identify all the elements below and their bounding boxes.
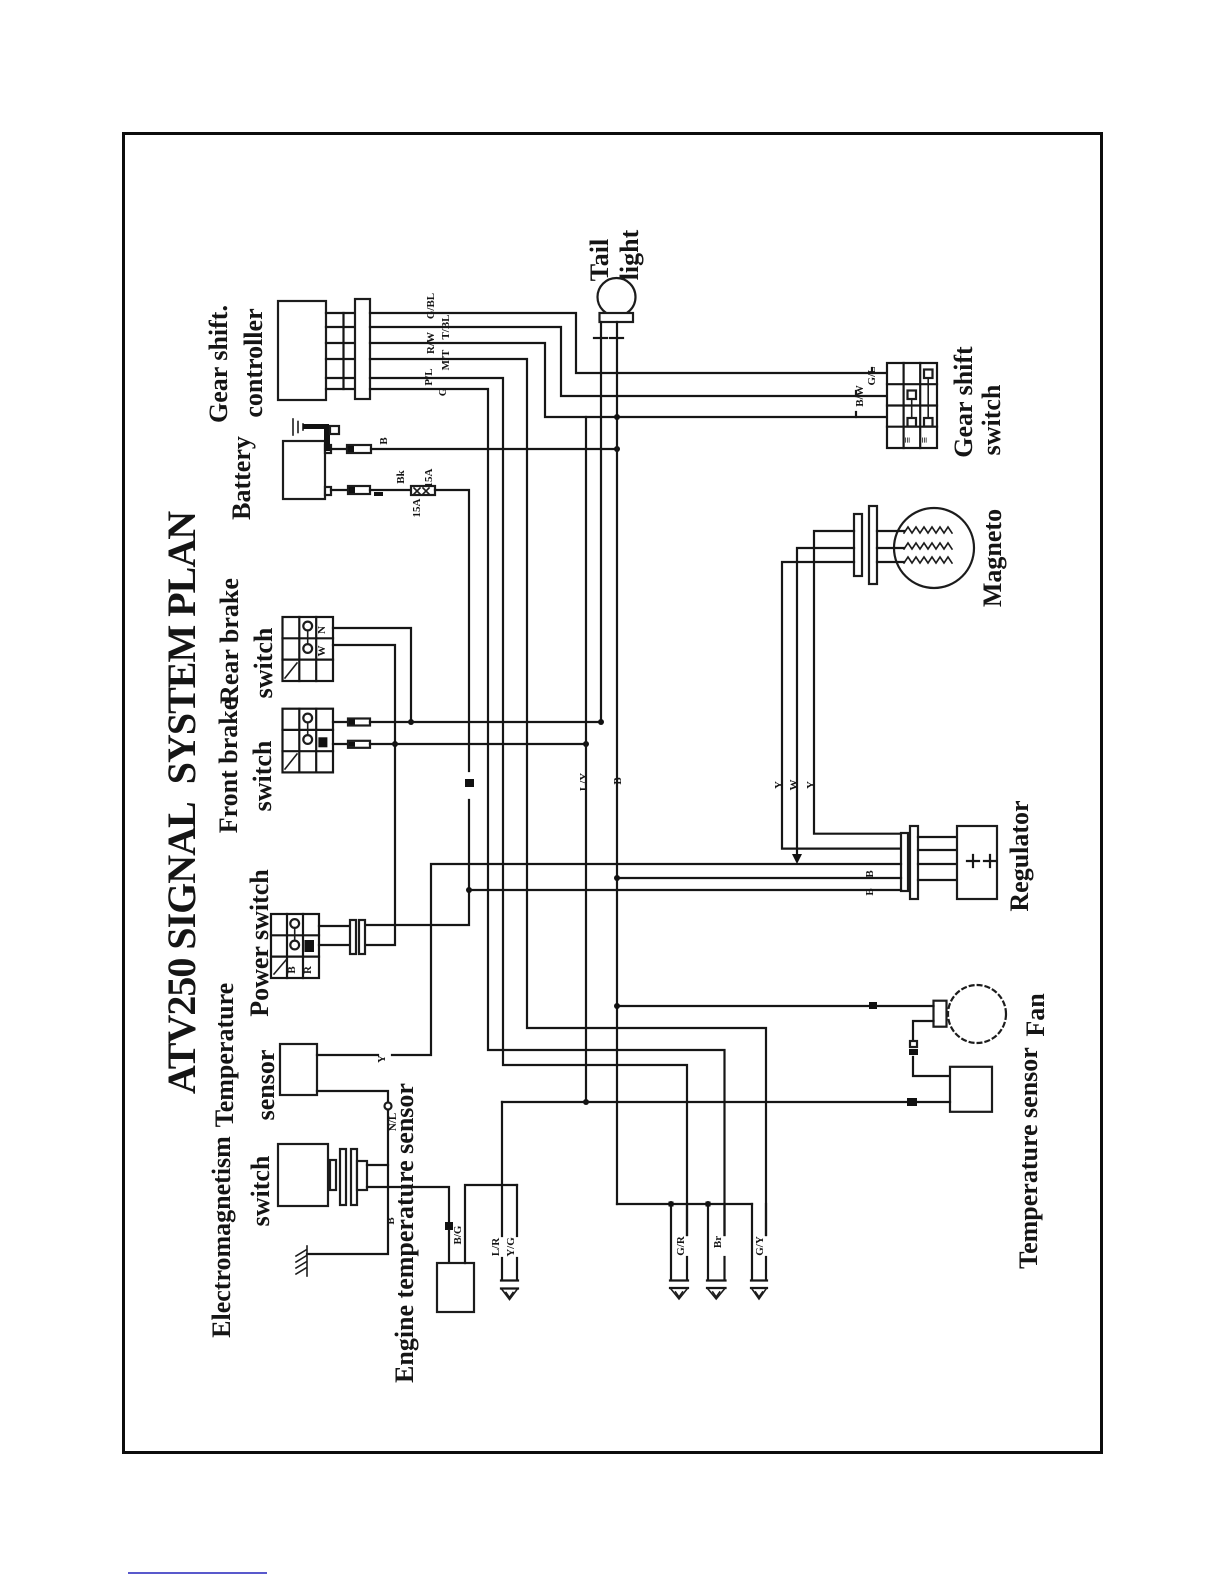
front brake diagonal [285, 754, 297, 769]
svg-text:15A: 15A [411, 498, 423, 517]
wire B: battery to tail light lead junction [371, 448, 617, 450]
svg-text:Bk: Bk [395, 469, 407, 483]
wire G: controller pin6 south run [370, 389, 725, 1235]
svg-text:switch: switch [249, 627, 278, 698]
connector bar right lead [610, 337, 623, 339]
svg-text:B: B [286, 966, 298, 974]
node: tail right lead x R/W wire [614, 414, 620, 420]
node [614, 875, 620, 881]
node [705, 1201, 711, 1207]
wire tag [374, 492, 383, 496]
wire G/BL: controller pin1 to gear shift switch row1 [370, 313, 887, 373]
svg-text:switch: switch [246, 1155, 275, 1226]
svg-text:G/L: G/L [866, 367, 878, 386]
svg-text:Regulator: Regulator [1005, 800, 1034, 911]
electromagnetism connector [330, 1160, 336, 1190]
svg-text:switch: switch [977, 384, 1006, 455]
svg-text:Temperature: Temperature [210, 983, 239, 1127]
front brake contact [303, 714, 312, 723]
svg-text:sensor: sensor [251, 1050, 280, 1121]
connector bar left lead [594, 337, 607, 339]
wire L/R vertical [501, 1102, 503, 1236]
wire B/G: engine sensor pin2 [465, 1185, 517, 1263]
svg-text:Tail: Tail [585, 239, 614, 281]
power switch grid [271, 914, 319, 978]
battery ground symbol [292, 419, 294, 435]
node [668, 1201, 674, 1207]
svg-text:G/R: G/R [675, 1235, 687, 1256]
regulator connector rungs [918, 836, 957, 838]
svg-text:L/Y: L/Y [578, 773, 590, 791]
rear brake switch grid [283, 617, 334, 681]
wire: rear brake 1 south [333, 628, 411, 722]
svg-text:B: B [864, 870, 876, 878]
fuse F1 on battery B wire [331, 448, 347, 450]
node: B wire joins tail lead [614, 446, 620, 452]
svg-text:G/Y: G/Y [754, 1236, 766, 1256]
wire: front brake 1 to tail left lead [370, 721, 601, 723]
svg-text:B: B [612, 777, 624, 785]
arrow head W wire [792, 854, 802, 864]
svg-text:ATV250 SIGNAL SYSTEM PLAN: ATV250 SIGNAL SYSTEM PLAN [159, 511, 204, 1094]
bullet bus from tail lead [617, 1203, 752, 1205]
svg-text:Power switch: Power switch [245, 869, 274, 1017]
svg-text:15A: 15A [423, 468, 435, 487]
border frame [124, 134, 1102, 1453]
magneto connector bars [854, 514, 862, 576]
svg-text:Br: Br [712, 1236, 724, 1248]
bullet connector 2: tip [707, 1279, 726, 1281]
ground symbol (electromagnetism) [296, 1246, 307, 1276]
wire: regulator pin4 from tail lead [617, 877, 901, 879]
temperature sensor (left) box [280, 1044, 317, 1095]
rear brake contact [303, 622, 312, 631]
svg-text:Gear shift: Gear shift [949, 346, 978, 458]
inline connector circle [385, 1103, 392, 1110]
node: joins front brake wire1 [408, 719, 414, 725]
wire ticks at gear shift switch [871, 368, 873, 373]
svg-text:B/G: B/G [452, 1225, 464, 1244]
gear shift controller ladder rail [342, 313, 344, 389]
fuse F3 15A [411, 486, 435, 495]
wire: R/W branch vertical [585, 417, 587, 1102]
front brake switch grid [283, 709, 334, 773]
power switch connector bars [350, 920, 356, 954]
fuse on front brake wire2 [333, 743, 348, 745]
node: R/W branch end [583, 1099, 589, 1105]
battery terminal minus [325, 487, 331, 495]
electromagnetism switch box [278, 1144, 328, 1206]
wire: connector to N/L node [367, 1164, 388, 1166]
wire W: magneto mid, arrow onto Y wire [797, 548, 854, 855]
wire: regulator pin5 from battery tap [469, 889, 901, 891]
svg-text:R/W: R/W [425, 332, 437, 354]
fan lower lead to temperature sensor [913, 1021, 934, 1040]
power switch contact [290, 919, 299, 928]
regulator ++ marks [967, 855, 979, 867]
svg-text:Y: Y [773, 781, 785, 789]
wire: rear brake 2 south [333, 645, 395, 945]
svg-text:M/T: M/T [440, 349, 452, 370]
bullet connector 1: tip [670, 1279, 688, 1281]
tail light left lead [600, 322, 602, 336]
wire B: tail lead to fan [617, 1005, 868, 1007]
node: regulator B tap [466, 887, 472, 893]
svg-text:B: B [864, 888, 876, 896]
svg-text:Front brake: Front brake [214, 699, 243, 834]
wire Y/BL: controller pin2 to gear shift switch row2 [370, 327, 887, 396]
wire Y/G vertical [516, 1185, 518, 1236]
power switch black cell [305, 940, 315, 952]
svg-text:Battery: Battery [227, 436, 256, 520]
svg-text:B: B [378, 437, 390, 445]
svg-text:W: W [788, 780, 800, 791]
battery ground lead (thick) [303, 424, 329, 429]
engine temperature sensor box [437, 1263, 474, 1312]
svg-text:G: G [437, 387, 449, 396]
power switch diagonal [274, 960, 286, 974]
bullet connector 3: tip [751, 1279, 767, 1281]
gear shift switch contact col2 [908, 391, 917, 400]
svg-text:Y/G: Y/G [505, 1237, 517, 1257]
battery terminal plus [325, 445, 331, 453]
magneto internal leads [877, 530, 904, 532]
svg-text:Temperature sensor: Temperature sensor [1014, 1047, 1043, 1269]
wire tag B on battery vertical [465, 779, 474, 787]
svg-text:Magneto: Magneto [978, 509, 1007, 607]
gear shift controller U1 box [278, 301, 326, 400]
gear shift controller connector J1 [355, 299, 370, 399]
magneto coil circle [894, 508, 974, 588]
svg-text:Y: Y [805, 781, 817, 789]
svg-text:L/R: L/R [490, 1237, 502, 1256]
svg-text:controller: controller [239, 308, 268, 417]
svg-text:≡: ≡ [902, 437, 914, 443]
wire: battery main south to power switch [435, 490, 469, 771]
rear brake diagonal [285, 663, 297, 678]
svg-text:Fan: Fan [1021, 993, 1050, 1037]
wire tag B [869, 1002, 877, 1009]
wire: connector to engine temp sensor [367, 1187, 449, 1222]
temperature sensor (bottom) box [950, 1067, 992, 1112]
tail light base [600, 313, 634, 322]
gear shift switch grid [887, 363, 937, 448]
svg-text:R: R [302, 965, 314, 974]
front brake black cell [318, 737, 327, 747]
wire BR/W: long wire to bottom temp sensor [502, 1101, 906, 1103]
wire tag B [445, 1222, 453, 1230]
gear shift controller pin stubs [326, 312, 355, 314]
wire: front brake 2 to R/W branch [370, 743, 586, 745]
wire Y/L: controller pin5 south run [370, 378, 687, 1235]
wire Y: magneto top to regulator pin1 [814, 531, 901, 834]
tail light right lead [616, 322, 618, 336]
gear shift switch contact col3 [924, 370, 933, 379]
wire R/W: controller pin3 to gear shift switch row3 [370, 343, 887, 417]
svg-text:Y: Y [376, 1055, 388, 1063]
magneto coil windings [904, 527, 952, 533]
footer blue rule [128, 1572, 267, 1574]
wire W/Y: controller pin4 south run [370, 359, 766, 1235]
svg-text:light: light [615, 229, 644, 280]
svg-text:P/L: P/L [423, 368, 435, 385]
fuse F2 on battery main wire [331, 489, 348, 491]
bullet connector 2: sides [707, 1204, 709, 1280]
fan circle [948, 985, 1006, 1043]
regulator connector bars [901, 833, 908, 891]
svg-text:≡: ≡ [919, 437, 931, 443]
wire Y2: magneto bottom to regulator pin2 [782, 562, 901, 849]
regulator box [957, 826, 997, 899]
node [598, 719, 604, 725]
svg-text:T/BL: T/BL [440, 314, 452, 339]
svg-text:N: N [316, 626, 328, 634]
svg-text:Engine temperature sensor: Engine temperature sensor [390, 1083, 419, 1383]
node: joins front brake wire2 [392, 741, 398, 747]
wire Y: temp sensor to regulator pin3 [317, 1054, 378, 1056]
svg-text:Rear brake: Rear brake [215, 578, 244, 704]
svg-text:Electromagnetism: Electromagnetism [207, 1136, 236, 1338]
2-pin plug tip [501, 1279, 518, 1281]
wire N/L: temp sensor to electromagnetism switch [317, 1091, 388, 1102]
bullet connector 1: sides [670, 1204, 672, 1280]
power switch connector stubs [319, 925, 350, 927]
fuse on front brake wire1 [333, 721, 348, 723]
svg-text:Gear shift.: Gear shift. [204, 305, 233, 423]
svg-text:B/W: B/W [854, 385, 866, 406]
svg-text:W: W [316, 646, 328, 657]
battery box [283, 441, 325, 499]
bullet connector 3: sides [751, 1204, 753, 1280]
fan terminal box [934, 1001, 947, 1027]
svg-text:G/BL: G/BL [425, 293, 437, 319]
node [614, 1003, 620, 1009]
svg-text:switch: switch [248, 740, 277, 811]
node [583, 741, 589, 747]
tail light bulb [598, 278, 636, 316]
